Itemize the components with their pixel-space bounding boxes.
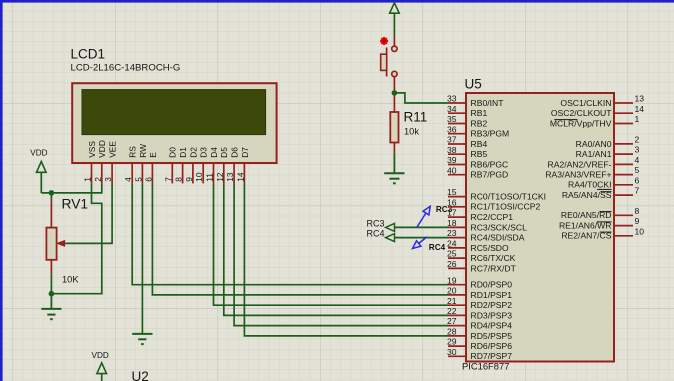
svg-text:D5: D5 [219, 147, 229, 158]
wire LCD pin 13 D6 to U5 pin 27 RD4 [234, 183, 448, 325]
svg-text:34: 34 [447, 104, 457, 114]
svg-text:36: 36 [447, 124, 457, 134]
resistor R11 body [390, 96, 398, 153]
svg-text:9: 9 [635, 216, 640, 226]
IC U5 left pin labels [471, 98, 546, 361]
IC U5 right pin numbers [635, 94, 645, 237]
svg-text:RD2/PSP2: RD2/PSP2 [471, 300, 513, 310]
svg-text:RC3/SCK/SCL: RC3/SCK/SCL [471, 222, 528, 232]
potentiometer RV1 value label 10K [62, 275, 79, 285]
wire LCD pin 5 RW to ground [141, 183, 143, 334]
wire RC3 tag to U5 pin 18 [395, 226, 449, 228]
svg-text:39: 39 [447, 155, 457, 165]
svg-text:10: 10 [194, 172, 204, 182]
svg-text:3: 3 [103, 177, 113, 182]
svg-text:12: 12 [215, 172, 225, 182]
svg-text:30: 30 [447, 347, 457, 357]
IC U5 active-low overlines and T0CKI underline [554, 120, 611, 233]
svg-text:RD7/PSP7: RD7/PSP7 [471, 351, 513, 361]
svg-text:RS: RS [128, 146, 138, 158]
svg-text:RC7/RX/DT: RC7/RX/DT [471, 263, 517, 273]
svg-text:RA0/AN0: RA0/AN0 [576, 139, 612, 149]
svg-text:27: 27 [447, 316, 457, 326]
wire LCD pin 6 E to U5 pin 20 RD1 [152, 183, 448, 295]
potentiometer RV1 bottom terminal wire [50, 260, 52, 294]
svg-text:U5: U5 [465, 77, 482, 92]
svg-text:1: 1 [635, 114, 640, 124]
svg-text:RA4/T0CKI: RA4/T0CKI [568, 180, 611, 190]
IC U5 body PIC16F877 [466, 93, 614, 362]
svg-text:RB6/PGC: RB6/PGC [471, 159, 509, 169]
svg-text:1: 1 [83, 177, 93, 182]
svg-text:2: 2 [93, 177, 103, 182]
potentiometer RV1 top terminal wire [50, 193, 52, 228]
LCD LCD1 pin numbers 1-14 (rotated) [83, 172, 246, 182]
svg-text:7: 7 [163, 177, 173, 182]
svg-text:D7: D7 [240, 147, 250, 158]
svg-text:RC4: RC4 [429, 243, 446, 252]
power VDD label (left) [30, 148, 47, 157]
svg-text:16: 16 [447, 197, 457, 207]
potentiometer RV1 wiper arrow [57, 241, 64, 247]
svg-text:4: 4 [123, 177, 133, 182]
svg-text:RC4: RC4 [366, 229, 384, 239]
svg-text:35: 35 [447, 114, 457, 124]
svg-text:15: 15 [447, 187, 457, 197]
svg-text:25: 25 [447, 249, 457, 259]
svg-text:RD6/PSP6: RD6/PSP6 [471, 341, 513, 351]
svg-text:8: 8 [635, 206, 640, 216]
blue annotation label RC3 [436, 205, 453, 214]
svg-text:3: 3 [635, 145, 640, 155]
wire VDD rail to LCD pin 2 [41, 183, 102, 193]
IC U2 reference label (partially visible) [132, 369, 149, 381]
svg-text:RC6/TX/CK: RC6/TX/CK [471, 253, 516, 263]
svg-text:RB7/PGD: RB7/PGD [471, 170, 509, 180]
wire LCD pin 3 VEE to RV1 wiper [63, 183, 112, 243]
wire LCD pin 4 RS to U5 pin 19 RD0 [132, 183, 448, 284]
svg-text:RD5/PSP5: RD5/PSP5 [471, 331, 513, 341]
IC U5 part number label PIC16F877 [462, 360, 509, 371]
svg-text:VSS: VSS [87, 141, 97, 158]
svg-text:RD1/PSP1: RD1/PSP1 [471, 290, 513, 300]
blue annotation arrow RC4 [413, 237, 428, 249]
svg-text:VDD: VDD [97, 140, 107, 158]
svg-text:D4: D4 [209, 147, 219, 158]
power VDD label (bottom) [92, 351, 109, 360]
wire LCD pin 1 VSS to ground rail [51, 183, 101, 293]
svg-text:14: 14 [235, 172, 245, 182]
svg-text:D6: D6 [230, 147, 240, 158]
IC U5 left pin stubs [448, 103, 466, 356]
svg-text:29: 29 [447, 337, 457, 347]
svg-text:RB1: RB1 [471, 108, 488, 118]
svg-text:D3: D3 [199, 147, 209, 158]
terminal tag RC3 label [366, 218, 384, 228]
svg-text:OSC1/CLKIN: OSC1/CLKIN [560, 98, 611, 108]
terminal tag RC4 label [366, 229, 384, 239]
svg-text:14: 14 [635, 104, 645, 114]
wire LCD pin 14 D7 to U5 pin 28 RD5 [244, 183, 448, 336]
push button bottom terminal [392, 71, 397, 90]
svg-text:RW: RW [138, 144, 148, 158]
svg-text:37: 37 [447, 135, 457, 145]
IC U5 left pin numbers [447, 94, 457, 357]
svg-text:RB0/INT: RB0/INT [471, 98, 505, 108]
svg-text:13: 13 [225, 172, 235, 182]
LCD LCD1 body [72, 83, 276, 163]
svg-text:5: 5 [133, 177, 143, 182]
terminal tag RC4 symbol [386, 234, 395, 242]
svg-text:26: 26 [447, 259, 457, 269]
power VDD arrow symbol (top) [390, 3, 400, 37]
svg-text:RC4/SDI/SDA: RC4/SDI/SDA [471, 233, 525, 243]
IC U5 right pin stubs [614, 103, 633, 236]
svg-text:23: 23 [447, 228, 457, 238]
svg-text:11: 11 [205, 173, 215, 182]
junction node at VDD rail / RV1 top [49, 190, 55, 196]
svg-text:D1: D1 [178, 147, 188, 158]
svg-text:2: 2 [635, 135, 640, 145]
ground symbol under RV1 [41, 294, 61, 320]
svg-text:D2: D2 [188, 147, 198, 158]
svg-text:9: 9 [184, 177, 194, 182]
svg-text:8: 8 [174, 177, 184, 182]
svg-text:RB2: RB2 [471, 118, 488, 128]
svg-text:10k: 10k [404, 126, 419, 136]
terminal tag RC3 symbol [386, 223, 395, 231]
push button red interaction star [380, 37, 388, 45]
svg-text:RC0/T1OSO/T1CKI: RC0/T1OSO/T1CKI [471, 192, 546, 202]
svg-text:RB5: RB5 [471, 149, 488, 159]
svg-text:RC1/T1OSI/CCP2: RC1/T1OSI/CCP2 [471, 202, 541, 212]
svg-text:13: 13 [635, 94, 645, 104]
svg-text:VDD: VDD [92, 351, 109, 360]
ground symbol under R11 [384, 152, 404, 183]
svg-text:RB3/PGM: RB3/PGM [471, 129, 510, 139]
svg-text:RV1: RV1 [62, 197, 89, 212]
svg-text:RC2/CCP1: RC2/CCP1 [471, 212, 514, 222]
resistor R11 value label 10k [404, 126, 419, 136]
svg-text:6: 6 [143, 177, 153, 182]
svg-text:38: 38 [447, 145, 457, 155]
svg-text:40: 40 [447, 165, 457, 175]
wire LCD pin 12 D5 to U5 pin 22 RD3 [224, 183, 448, 315]
LCD LCD1 value label LCD-2L16C-14BROCH-G [71, 63, 181, 74]
svg-text:VDD: VDD [30, 148, 47, 157]
svg-text:10K: 10K [62, 275, 79, 285]
svg-text:D0: D0 [168, 147, 178, 158]
IC U5 reference label [465, 77, 482, 92]
svg-text:E: E [148, 152, 158, 158]
power VDD arrow symbol (bottom) [97, 363, 107, 381]
svg-text:20: 20 [447, 286, 457, 296]
IC U5 right pin labels [545, 98, 612, 241]
svg-text:RD3/PSP3: RD3/PSP3 [471, 310, 513, 320]
svg-text:LCD-2L16C-14BROCH-G: LCD-2L16C-14BROCH-G [71, 63, 181, 74]
svg-text:RA3/AN3/VREF+: RA3/AN3/VREF+ [545, 170, 611, 180]
svg-text:24: 24 [447, 239, 457, 249]
svg-text:7: 7 [635, 186, 640, 196]
svg-text:RD0/PSP0: RD0/PSP0 [471, 280, 513, 290]
svg-text:21: 21 [447, 296, 457, 306]
wire LCD pin 11 D4 to U5 pin 21 RD2 [214, 183, 449, 305]
wire RC4 tag to U5 pin 23 [395, 237, 449, 239]
svg-text:LCD1: LCD1 [71, 47, 106, 62]
svg-text:19: 19 [447, 275, 457, 285]
svg-text:RC5/SDO: RC5/SDO [471, 243, 510, 253]
ground symbol under RW wire [132, 334, 152, 344]
svg-text:28: 28 [447, 327, 457, 337]
svg-text:17: 17 [447, 208, 457, 218]
svg-text:RC3: RC3 [366, 218, 384, 228]
svg-text:10: 10 [635, 226, 645, 236]
LCD LCD1 reference label [71, 47, 106, 62]
junction node at ground rail / RV1 bottom [49, 291, 55, 297]
svg-text:RB4: RB4 [471, 139, 488, 149]
svg-text:RA1/AN1: RA1/AN1 [576, 149, 612, 159]
potentiometer RV1 body [46, 228, 56, 260]
potentiometer RV1 reference label [62, 197, 89, 212]
svg-text:22: 22 [447, 306, 457, 316]
LCD LCD1 pin name labels VSS VDD VEE RS RW E D0-D7 (rotated) [87, 140, 250, 158]
svg-text:OSC2/CLKOUT: OSC2/CLKOUT [551, 108, 612, 118]
svg-text:18: 18 [447, 218, 457, 228]
push button actuator [381, 48, 387, 77]
LCD LCD1 pin stubs 1-14 [92, 163, 245, 183]
blue annotation arrow RC3 [417, 206, 430, 227]
svg-text:6: 6 [635, 175, 640, 185]
push button top terminal [392, 37, 397, 52]
svg-text:RA2/AN2/VREF-: RA2/AN2/VREF- [548, 159, 612, 169]
junction node button / R11 / RB0 [392, 90, 398, 96]
svg-text:R11: R11 [404, 110, 428, 125]
blue annotation label RC4 [429, 243, 446, 252]
svg-text:5: 5 [635, 165, 640, 175]
svg-text:33: 33 [447, 94, 457, 104]
svg-text:U2: U2 [132, 369, 149, 381]
wire junction to U5 pin 33 RB0/INT [394, 93, 448, 103]
svg-text:VEE: VEE [108, 141, 118, 158]
resistor R11 reference label [404, 110, 428, 125]
power VDD arrow symbol (left) [37, 162, 47, 194]
svg-text:4: 4 [635, 155, 640, 165]
svg-text:RD4/PSP4: RD4/PSP4 [471, 321, 513, 331]
svg-text:PIC16F877: PIC16F877 [462, 360, 509, 371]
